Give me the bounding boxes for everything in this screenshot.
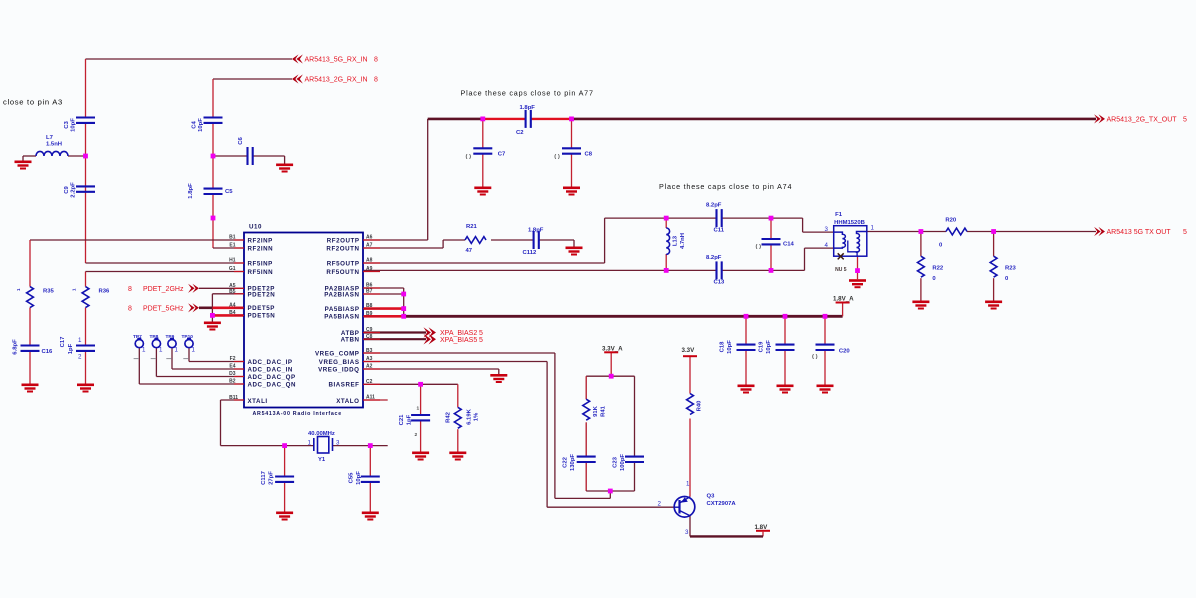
- svg-text:RF5OUTN: RF5OUTN: [326, 269, 359, 276]
- svg-text:100pF: 100pF: [620, 454, 626, 471]
- svg-text:C112: C112: [523, 250, 537, 256]
- svg-text:B2: B2: [229, 379, 236, 385]
- svg-text:1: 1: [175, 347, 179, 354]
- svg-text:L13: L13: [673, 235, 679, 246]
- svg-text:2.2pF: 2.2pF: [71, 182, 77, 198]
- svg-text:130pF: 130pF: [570, 454, 576, 471]
- svg-text:10pF: 10pF: [727, 340, 733, 354]
- svg-text:10pF: 10pF: [766, 340, 772, 354]
- svg-text:PA5BIASN: PA5BIASN: [324, 314, 359, 321]
- svg-text:8: 8: [374, 57, 378, 64]
- svg-text:( ): ( ): [812, 354, 818, 360]
- svg-text:TP9: TP9: [166, 334, 175, 340]
- svg-text:B7: B7: [366, 289, 373, 295]
- svg-text:91K: 91K: [593, 405, 599, 417]
- svg-text:ADC_DAC_QN: ADC_DAC_QN: [248, 381, 296, 388]
- svg-text:1: 1: [159, 347, 163, 354]
- svg-text:AR5413A-00 Radio Interface: AR5413A-00 Radio Interface: [253, 411, 342, 417]
- svg-text:TP7: TP7: [133, 334, 142, 340]
- svg-text:C20: C20: [839, 349, 851, 355]
- svg-text:C3: C3: [64, 121, 70, 129]
- svg-text:CXT2907A: CXT2907A: [707, 501, 737, 507]
- svg-text:RF5INP: RF5INP: [248, 260, 273, 267]
- svg-text:8: 8: [128, 286, 132, 293]
- svg-text:AR5413 5G TX OUT: AR5413 5G TX OUT: [1107, 229, 1172, 236]
- svg-text:RF2INN: RF2INN: [248, 245, 274, 252]
- svg-text:8: 8: [374, 77, 378, 84]
- svg-text:AR5413_2G_RX_IN: AR5413_2G_RX_IN: [305, 77, 368, 84]
- svg-text:C22: C22: [563, 456, 569, 468]
- svg-text:1.8pF: 1.8pF: [520, 105, 536, 111]
- svg-text:40.00MHz: 40.00MHz: [308, 431, 335, 437]
- svg-text:C11: C11: [714, 227, 725, 233]
- svg-text:R41: R41: [601, 405, 607, 417]
- svg-text:3: 3: [336, 440, 340, 447]
- svg-text:1.8V_A: 1.8V_A: [833, 295, 854, 302]
- svg-text:1: 1: [871, 225, 875, 232]
- svg-text:E1: E1: [229, 243, 235, 249]
- svg-text:A6: A6: [366, 235, 373, 241]
- svg-text:10pF: 10pF: [71, 118, 77, 132]
- svg-text:C21: C21: [399, 414, 405, 426]
- svg-text:A11: A11: [366, 395, 375, 401]
- svg-text:PDET5P: PDET5P: [248, 305, 275, 312]
- svg-text:Place these caps close to pin: Place these caps close to pin A74: [659, 182, 792, 191]
- svg-text:C8: C8: [585, 151, 593, 157]
- svg-text:VREG_COMP: VREG_COMP: [315, 350, 360, 357]
- svg-text:1.8pF: 1.8pF: [188, 183, 194, 199]
- svg-text:1pF: 1pF: [407, 414, 413, 425]
- svg-text:3: 3: [685, 529, 689, 536]
- svg-text:C4: C4: [192, 121, 198, 129]
- svg-text:( ): ( ): [554, 154, 560, 160]
- svg-text:C13: C13: [714, 280, 726, 286]
- svg-text:2: 2: [658, 501, 662, 508]
- svg-text:R35: R35: [43, 289, 55, 295]
- svg-text:PDET_2GHz: PDET_2GHz: [143, 286, 184, 293]
- svg-text:C2: C2: [516, 130, 524, 136]
- svg-text:4.7nH: 4.7nH: [680, 233, 686, 249]
- svg-text:1: 1: [142, 347, 146, 354]
- svg-text:E4: E4: [229, 364, 235, 370]
- svg-text:B5: B5: [229, 289, 236, 295]
- svg-text:B9: B9: [366, 311, 373, 317]
- svg-text:ATBN: ATBN: [341, 337, 360, 344]
- svg-text:R20: R20: [945, 218, 957, 224]
- svg-text:1: 1: [686, 481, 690, 488]
- svg-text:5: 5: [1183, 229, 1187, 236]
- svg-text:RF2OUTN: RF2OUTN: [326, 245, 359, 252]
- svg-text:ADC_DAC_IN: ADC_DAC_IN: [248, 366, 293, 373]
- svg-text:8: 8: [128, 306, 132, 313]
- svg-text:A8: A8: [366, 258, 373, 264]
- svg-text:G1: G1: [229, 266, 236, 272]
- svg-text:C19: C19: [759, 341, 765, 353]
- svg-text:Q3: Q3: [707, 494, 716, 500]
- svg-text:ADC_DAC_IP: ADC_DAC_IP: [248, 359, 293, 366]
- svg-text:5: 5: [1183, 117, 1187, 124]
- svg-text:10pF: 10pF: [356, 471, 362, 485]
- svg-text:B8: B8: [366, 303, 373, 309]
- svg-text:XTALO: XTALO: [336, 398, 359, 405]
- svg-text:C16: C16: [42, 349, 54, 355]
- svg-text:8.2pF: 8.2pF: [706, 203, 722, 209]
- svg-text:Y1: Y1: [318, 457, 326, 463]
- svg-text:C2: C2: [366, 379, 373, 385]
- svg-text:XPA_BIAS5: XPA_BIAS5: [440, 337, 477, 344]
- svg-text:Place these caps close to pin: Place these caps close to pin A77: [461, 89, 594, 98]
- svg-text:1: 1: [192, 347, 196, 354]
- svg-text:1pF: 1pF: [68, 343, 74, 354]
- svg-text:PDET_5GHz: PDET_5GHz: [143, 306, 184, 313]
- svg-text:L7: L7: [46, 135, 54, 141]
- svg-text:U10: U10: [249, 224, 262, 231]
- svg-text:TP10: TP10: [182, 334, 194, 340]
- svg-text:F1: F1: [835, 212, 843, 218]
- svg-text:H1: H1: [229, 258, 236, 264]
- svg-text:C17: C17: [60, 336, 66, 348]
- svg-text:HHM1520B: HHM1520B: [834, 220, 865, 226]
- svg-text:D3: D3: [229, 371, 236, 377]
- svg-text:R40: R40: [697, 400, 703, 412]
- svg-text:PA2BIASN: PA2BIASN: [324, 291, 359, 298]
- svg-text:8.2pF: 8.2pF: [706, 255, 722, 261]
- svg-text:RF2INP: RF2INP: [248, 237, 273, 244]
- svg-text:B1: B1: [229, 235, 236, 241]
- svg-text:2: 2: [78, 354, 82, 361]
- svg-text:3.3V: 3.3V: [682, 347, 696, 354]
- svg-text:VREG_IDDQ: VREG_IDDQ: [318, 366, 359, 373]
- svg-text:close to pin A3: close to pin A3: [3, 98, 63, 107]
- svg-text:F2: F2: [230, 356, 236, 362]
- svg-text:27pF: 27pF: [269, 471, 275, 485]
- svg-text:C14: C14: [783, 242, 795, 248]
- svg-text:5: 5: [479, 337, 483, 344]
- svg-text:C9: C9: [366, 327, 373, 333]
- svg-text:R42: R42: [446, 411, 452, 423]
- svg-text:TP8: TP8: [150, 334, 159, 340]
- svg-text:R21: R21: [466, 224, 478, 230]
- svg-text:A7: A7: [366, 243, 373, 249]
- svg-text:C55: C55: [349, 472, 355, 484]
- svg-text:10pF: 10pF: [198, 118, 204, 132]
- svg-text:PA5BIASP: PA5BIASP: [325, 306, 360, 313]
- svg-text:R22: R22: [932, 266, 944, 272]
- svg-text:NU 5: NU 5: [835, 267, 847, 273]
- svg-text:6.8pF: 6.8pF: [13, 339, 19, 355]
- svg-text:C9: C9: [64, 186, 70, 194]
- svg-text:R23: R23: [1005, 266, 1017, 272]
- svg-text:1%: 1%: [474, 412, 480, 421]
- svg-text:VREG_BIAS: VREG_BIAS: [319, 359, 360, 366]
- svg-text:RF5INN: RF5INN: [248, 269, 274, 276]
- svg-text:ADC_DAC_QP: ADC_DAC_QP: [248, 374, 296, 381]
- svg-text:C6: C6: [238, 137, 244, 145]
- svg-text:1: 1: [78, 337, 82, 344]
- svg-text:1.5nH: 1.5nH: [46, 142, 62, 148]
- svg-text:A9: A9: [366, 266, 373, 272]
- svg-text:( ): ( ): [466, 154, 472, 160]
- svg-text:C117: C117: [261, 470, 267, 484]
- svg-text:A4: A4: [229, 302, 236, 308]
- svg-text:3: 3: [825, 226, 829, 233]
- svg-text:XTALI: XTALI: [248, 398, 268, 405]
- svg-text:C5: C5: [225, 189, 233, 195]
- svg-text:3.3V_A: 3.3V_A: [602, 346, 623, 353]
- svg-text:1: 1: [417, 406, 420, 412]
- svg-text:C18: C18: [720, 341, 726, 353]
- svg-text:B3: B3: [366, 348, 373, 354]
- svg-text:AR5413_5G_RX_IN: AR5413_5G_RX_IN: [305, 57, 368, 64]
- svg-text:1: 1: [308, 440, 312, 447]
- svg-text:B4: B4: [229, 310, 236, 316]
- svg-text:2: 2: [415, 432, 418, 438]
- svg-text:RF5OUTP: RF5OUTP: [327, 260, 360, 267]
- svg-text:C8: C8: [366, 334, 373, 340]
- svg-text:B11: B11: [229, 395, 238, 401]
- svg-text:BIASREF: BIASREF: [328, 382, 359, 389]
- svg-text:PDET2N: PDET2N: [248, 292, 276, 299]
- svg-text:1.8V: 1.8V: [755, 524, 769, 531]
- svg-text:( ): ( ): [756, 244, 762, 250]
- svg-text:1.8pF: 1.8pF: [528, 228, 544, 234]
- svg-text:R36: R36: [99, 289, 111, 295]
- svg-text:A3: A3: [366, 356, 373, 362]
- svg-text:AR5413_2G_TX_OUT: AR5413_2G_TX_OUT: [1107, 117, 1178, 124]
- svg-text:47: 47: [466, 248, 473, 254]
- svg-text:C7: C7: [498, 151, 506, 157]
- svg-text:6.19K: 6.19K: [467, 408, 473, 424]
- svg-text:RF2OUTP: RF2OUTP: [327, 237, 360, 244]
- svg-text:4: 4: [825, 242, 829, 249]
- svg-text:C23: C23: [613, 456, 619, 468]
- svg-text:PDET5N: PDET5N: [248, 313, 276, 320]
- svg-text:A2: A2: [366, 364, 373, 370]
